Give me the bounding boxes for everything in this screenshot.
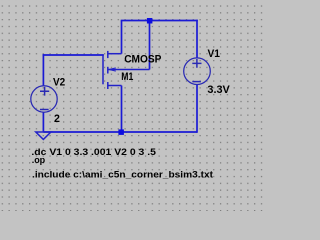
wire: bottom rail (ground rail) bbox=[43, 131, 197, 133]
svg-text:.include c:\ami_c5n_corner_bsi: .include c:\ami_c5n_corner_bsim3.txt bbox=[32, 169, 213, 179]
wire: top rail bbox=[121, 20, 198, 22]
wire: V1 bottom vertical bbox=[196, 85, 198, 133]
wire: V2 top vertical bbox=[42, 54, 44, 86]
bulk stub bbox=[108, 69, 150, 71]
wire: V2 bottom vertical bbox=[42, 112, 44, 132]
svg-text:M1: M1 bbox=[121, 71, 133, 83]
svg-text:.op: .op bbox=[32, 155, 46, 165]
ground symbol bbox=[36, 132, 51, 139]
svg-text:3.3V: 3.3V bbox=[207, 84, 229, 96]
svg-text:.dc V1 0 3.3 .001 V2 0 3 .5: .dc V1 0 3.3 .001 V2 0 3 .5 bbox=[31, 147, 155, 157]
svg-text:2: 2 bbox=[54, 113, 60, 125]
channel segment bottom bbox=[107, 82, 109, 89]
wire: M1 drain down to rail bbox=[121, 86, 123, 133]
voltage source V1 bbox=[184, 58, 211, 85]
gate bar bbox=[102, 54, 104, 84]
drain stub bbox=[108, 85, 122, 87]
source stub bbox=[108, 53, 122, 55]
wire: bulk wire down from top rail bbox=[149, 21, 151, 70]
voltage source V2 bbox=[31, 86, 57, 112]
svg-text:V2: V2 bbox=[53, 77, 65, 89]
wire: gate wire from V2 top to M1 gate bbox=[43, 54, 104, 56]
channel segment middle bbox=[107, 67, 109, 74]
bulk arrow bbox=[109, 68, 116, 71]
junction dot at bottom rail / drain wire bbox=[118, 129, 124, 135]
wire: M1 source up to top rail bbox=[121, 21, 123, 54]
wire: V1 top vertical bbox=[196, 20, 198, 58]
transistor M1 (PMOS) bbox=[103, 51, 150, 89]
svg-text:CMOSP: CMOSP bbox=[124, 53, 162, 65]
junction dot at top rail / bulk wire bbox=[147, 18, 153, 24]
channel segment top bbox=[107, 51, 109, 58]
svg-text:V1: V1 bbox=[208, 48, 221, 60]
